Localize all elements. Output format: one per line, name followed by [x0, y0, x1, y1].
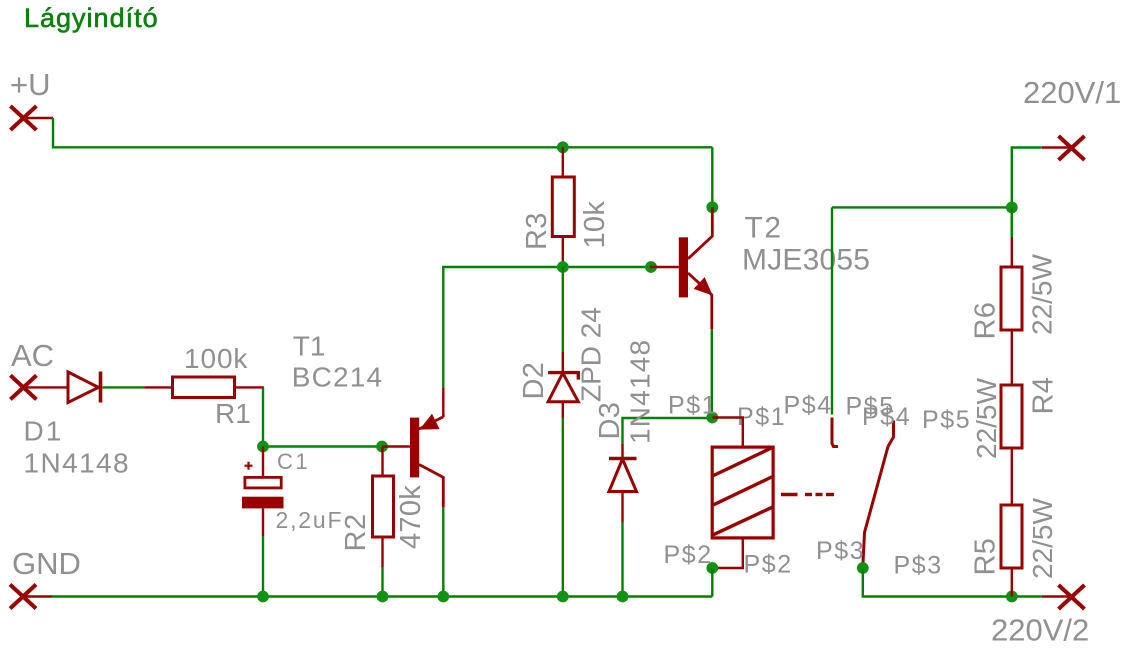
switch S1 pin label P$3 left: [816, 537, 865, 565]
diode D2 zener bar: [548, 373, 578, 380]
transistor T2 base bar: [679, 237, 688, 297]
net flag 220V/2 label: [991, 613, 1089, 648]
wire 220V/1 to R6 column: [1012, 148, 1042, 238]
wire switch P$4 to column node: [832, 206, 1012, 208]
transistor T2 base pin: [650, 266, 679, 268]
wire R2 to GND rail: [381, 567, 383, 597]
resistor R1 right pin: [235, 386, 264, 388]
transistor T1 collector: [419, 465, 443, 508]
node junction R3 bottom: [557, 261, 569, 273]
svg-text:R5: R5: [970, 538, 1002, 576]
node junction GND D2: [557, 591, 569, 603]
resistor R6 body: [1001, 267, 1022, 330]
svg-text:1N4148: 1N4148: [625, 339, 656, 444]
node junction column top: [1006, 202, 1018, 214]
resistor R4 body: [1001, 385, 1022, 448]
wire C1 node to R2 node: [263, 445, 382, 447]
transistor T1 emitter: [419, 417, 443, 429]
diode D2 top pin: [562, 352, 564, 373]
svg-text:1N4148: 1N4148: [24, 448, 130, 479]
wire R1 down to C1 node: [262, 387, 264, 446]
transistor T1 emitter arrow: [422, 416, 439, 429]
svg-text:C1: C1: [277, 449, 310, 474]
svg-text:P$2: P$2: [744, 551, 793, 579]
transistor T2 value MJE3055: [742, 244, 870, 277]
capacitor C1 top plate: [245, 477, 281, 488]
relay K1 coil body: [712, 447, 773, 538]
relay K1 pin label P$2 right: [744, 551, 793, 579]
relay K1 coil hatch: [713, 448, 773, 535]
relay K1 pin label P$1 left: [668, 392, 717, 420]
svg-text:MJE3055: MJE3055: [742, 244, 870, 277]
resistor R5 body: [1001, 505, 1022, 568]
resistor R3 body: [552, 177, 574, 237]
svg-text:T2: T2: [745, 212, 783, 245]
net flag AC X symbol: [10, 375, 36, 399]
diode D2 triangle: [548, 373, 578, 402]
svg-text:100k: 100k: [184, 343, 248, 374]
svg-text:BC214: BC214: [292, 362, 384, 393]
switch S1 pin label P$5 right: [922, 406, 971, 434]
node junction T2 base: [645, 261, 657, 273]
svg-text:R4: R4: [1028, 377, 1060, 415]
net flag 220V/2 X symbol: [1059, 585, 1085, 609]
transistor T1 base bar: [410, 418, 419, 478]
capacitor C1 value 2,2uF: [276, 507, 344, 533]
wire D3 to P$1 node: [623, 418, 713, 444]
svg-text:AC: AC: [11, 338, 54, 373]
node junction C1 top: [257, 441, 269, 453]
wire D3 to GND rail: [621, 522, 623, 597]
net flag 220V/1 label: [1023, 75, 1121, 110]
svg-text:470k: 470k: [395, 485, 427, 549]
svg-text:P$4: P$4: [862, 403, 911, 431]
svg-text:+U: +U: [10, 67, 51, 102]
node junction GND C1: [257, 591, 269, 603]
resistor R2 bottom pin: [381, 537, 383, 567]
net flag GND X symbol: [10, 585, 36, 609]
wire D2 column: [562, 267, 564, 352]
svg-text:P$5: P$5: [922, 406, 971, 434]
svg-text:T1: T1: [293, 331, 326, 362]
node junction relay P$2: [706, 562, 718, 574]
net flag +U pin stub: [23, 117, 53, 119]
transistor T1 base pin: [382, 445, 410, 447]
resistor R4 name: [1028, 377, 1060, 415]
net flag 220V/1 pin stub: [1042, 146, 1072, 148]
resistor R6 name: [970, 302, 1002, 340]
transistor T1 emitter riser pin: [442, 388, 444, 417]
relay K1 bottom pin: [712, 537, 743, 568]
net flag 220V/1 X symbol: [1059, 136, 1085, 160]
diode D3 triangle: [609, 459, 637, 492]
resistor R2 value 470k: [395, 485, 427, 549]
node junction switch P$3: [857, 562, 869, 574]
switch S1 pin label P$3 right: [894, 552, 943, 580]
switch S1 contact P$5: [888, 421, 894, 447]
svg-text:P$1: P$1: [668, 392, 717, 420]
diode D3 bottom pin: [621, 492, 623, 523]
diode D3 value 1N4148: [625, 339, 656, 444]
resistor R4 value 22/5W: [971, 378, 1002, 459]
net flag GND pin stub: [23, 595, 52, 597]
relay K1 linkage dashes: [781, 493, 834, 496]
resistor R5 bottom pin: [1011, 568, 1013, 597]
resistor R3 pins: [562, 147, 564, 267]
wire base net y=267: [443, 267, 650, 388]
wire D1 to R1: [103, 386, 145, 388]
transistor T1 name: [293, 331, 326, 362]
svg-text:R2: R2: [340, 513, 372, 551]
diode D3 top pin: [621, 444, 623, 459]
resistor R3 value 10k: [579, 201, 611, 249]
wire relay P$2 to GND rail: [711, 568, 713, 597]
transistor T2 name: [745, 212, 783, 245]
svg-text:Lágyindító: Lágyindító: [24, 3, 159, 33]
diode D2 value ZPD 24: [576, 307, 607, 402]
resistor R5 value 22/5W: [1027, 498, 1058, 579]
resistor R6 top pin: [1011, 237, 1013, 267]
resistor R1 left pin: [144, 386, 173, 388]
svg-text:R1: R1: [215, 398, 251, 429]
svg-text:D2: D2: [518, 362, 550, 400]
resistor R6-R4 link pin: [1011, 330, 1013, 385]
svg-text:D3: D3: [594, 402, 626, 440]
svg-text:ZPD 24: ZPD 24: [576, 307, 607, 402]
switch S1 pin label P$5 left: [846, 393, 895, 421]
node junction GND T1: [437, 591, 449, 603]
resistor R6 value 22/5W: [1027, 254, 1058, 335]
diode D2 bottom pin: [562, 402, 564, 418]
capacitor C1 bottom plate: [242, 497, 284, 509]
svg-text:R6: R6: [970, 302, 1002, 340]
resistor R5 name: [970, 538, 1002, 576]
wire T2 emitter to relay P$1: [711, 329, 713, 418]
diode D3 cathode bar: [609, 457, 637, 460]
node junction R2 top: [376, 441, 388, 453]
diode D3 name: [594, 402, 626, 440]
net flag +U X symbol: [10, 106, 36, 130]
wire +U top rail: [53, 118, 712, 147]
title Lágyindító: [24, 3, 159, 33]
transistor T1 value BC214: [292, 362, 384, 393]
wire D2 to GND rail: [562, 418, 564, 597]
svg-text:P$3: P$3: [894, 552, 943, 580]
relay K1 pin label P$2 left: [664, 541, 713, 569]
wire GND rail left: [52, 595, 712, 597]
resistor R1 value 100k: [184, 343, 248, 374]
capacitor C1 name: [277, 449, 310, 474]
transistor T2 emitter arrow: [695, 279, 710, 294]
wire AC to diode D1: [23, 386, 68, 388]
capacitor C1 top pin: [262, 447, 264, 478]
node junction T2 collector: [706, 201, 718, 213]
wire T1 collector to GND rail: [442, 507, 444, 597]
relay K1 top pin: [712, 418, 743, 448]
net flag 220V/2 pin stub: [1042, 595, 1072, 597]
diode D2 name: [518, 362, 550, 400]
svg-text:220V/2: 220V/2: [991, 613, 1089, 648]
switch S1 contact P$4: [832, 418, 838, 447]
diode D1 cathode bar: [99, 372, 103, 403]
svg-text:220V/1: 220V/1: [1023, 75, 1121, 110]
svg-text:22/5W: 22/5W: [1027, 498, 1058, 579]
node junction GND D3: [617, 591, 629, 603]
svg-text:P$2: P$2: [664, 541, 713, 569]
resistor R3 name label: [521, 212, 553, 250]
diode D1 name: [24, 416, 64, 447]
switch S1 lever: [863, 447, 888, 567]
svg-text:R3: R3: [521, 212, 553, 250]
diode D1 triangle: [68, 372, 99, 403]
svg-text:D1: D1: [24, 416, 64, 447]
wire column node to R6: [1011, 207, 1013, 237]
resistor R2 top pin: [381, 447, 383, 477]
svg-text:22/5W: 22/5W: [971, 378, 1002, 459]
node junction relay P$1: [706, 412, 718, 424]
resistor R2 body: [373, 476, 394, 537]
resistor R4-R5 link pin: [1011, 448, 1013, 505]
svg-text:P$4: P$4: [784, 392, 833, 420]
svg-text:22/5W: 22/5W: [1027, 254, 1058, 335]
net flag GND label: [12, 546, 81, 581]
transistor T2 emitter: [688, 273, 712, 329]
wire P$3 to GND rail right: [863, 568, 1042, 597]
switch S1 pin label P$4 left: [784, 392, 833, 420]
svg-text:2,2uF: 2,2uF: [276, 507, 344, 533]
switch S1 pin label P$4 right: [862, 403, 911, 431]
net flag AC label: [11, 338, 54, 373]
net flag +U label: [10, 67, 51, 102]
svg-text:P$1: P$1: [737, 403, 786, 431]
capacitor C1 plus sign: [245, 462, 253, 470]
resistor R1 body: [173, 377, 235, 398]
transistor T2 collector: [688, 207, 712, 258]
relay K1 pin label P$1 right: [737, 403, 786, 431]
capacitor C1 bottom pin: [262, 508, 264, 536]
wire switch P$4 vertical: [831, 207, 833, 414]
node junction column bottom: [1006, 591, 1018, 603]
wire C1 to GND rail: [262, 536, 264, 597]
resistor R2 name: [340, 513, 372, 551]
svg-text:10k: 10k: [579, 201, 611, 249]
resistor R1 name: [215, 398, 251, 429]
svg-text:GND: GND: [12, 546, 81, 581]
diode D1 value 1N4148: [24, 448, 130, 479]
node junction R3 top: [557, 141, 569, 153]
wire top rail down to T2 collector node: [711, 147, 713, 207]
svg-text:P$3: P$3: [816, 537, 865, 565]
node junction GND R2: [377, 591, 389, 603]
